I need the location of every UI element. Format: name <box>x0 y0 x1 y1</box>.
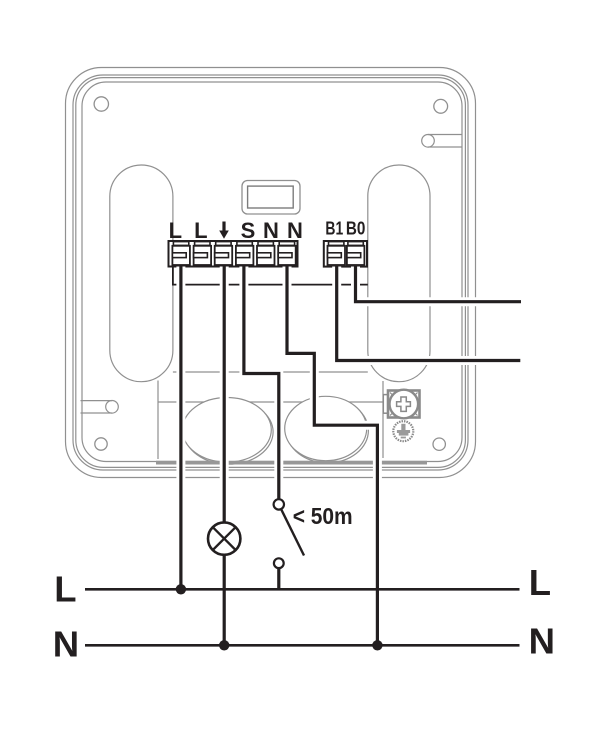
wire terminal B0 <box>356 267 522 302</box>
wire terminal L to L line <box>179 267 182 590</box>
wire casings <box>181 267 521 646</box>
screw hole top-right <box>434 99 448 113</box>
terminal block TB1 body <box>169 241 298 267</box>
terminal block TB2 body <box>324 241 367 267</box>
junction on L <box>176 584 186 594</box>
wire terminal arrow to lamp to N line <box>223 267 226 646</box>
junction on N right <box>372 640 382 650</box>
svg-text:L: L <box>169 218 182 243</box>
screw hole top-left <box>94 97 108 111</box>
cable knockout right <box>285 396 369 463</box>
tall slot right <box>368 165 430 382</box>
display window <box>242 181 300 215</box>
screw hole bottom-right <box>433 438 445 450</box>
cable entry slot right <box>422 135 462 148</box>
net L line <box>85 588 520 591</box>
fixing screw <box>393 421 413 441</box>
label terminal 3 arrow <box>219 222 229 239</box>
wire switch to L line <box>277 568 280 589</box>
tall slot left <box>110 165 173 382</box>
terminal 6 N <box>278 242 296 265</box>
svg-text:N: N <box>287 218 303 243</box>
terminal 5 N <box>257 242 275 265</box>
svg-text:L: L <box>194 218 207 243</box>
terminal 4 S <box>236 242 254 265</box>
wire terminal B1 <box>337 267 521 361</box>
wiring channel <box>158 372 384 459</box>
terminal housing lower edge <box>173 267 368 285</box>
svg-text:N: N <box>263 218 279 243</box>
wire terminal N to N line <box>287 267 377 646</box>
terminal B1 <box>328 242 346 265</box>
terminal 2 L <box>194 242 212 265</box>
svg-text:B0: B0 <box>346 218 366 239</box>
net N line <box>85 644 520 647</box>
svg-text:N: N <box>53 624 79 665</box>
svg-text:N: N <box>529 621 555 662</box>
terminal B0 <box>347 242 365 265</box>
switch <box>274 499 304 568</box>
terminal 3 arrow <box>215 242 233 265</box>
terminal 1 L <box>172 242 190 265</box>
cable knockout left <box>182 398 273 465</box>
cable entry slot left <box>81 401 119 414</box>
svg-text:S: S <box>241 218 256 243</box>
lamp <box>208 522 240 554</box>
channel bottom bar <box>156 461 427 465</box>
wire terminal S to switch <box>244 267 279 500</box>
wall plate outline <box>66 68 476 478</box>
screw hole bottom-left <box>95 438 107 450</box>
svg-text:L: L <box>529 562 551 603</box>
junction on N left <box>219 640 229 650</box>
svg-text:B1: B1 <box>325 218 343 239</box>
svg-text:< 50m: < 50m <box>293 503 353 529</box>
svg-text:L: L <box>54 569 76 610</box>
fixing screw clamp <box>383 390 419 419</box>
